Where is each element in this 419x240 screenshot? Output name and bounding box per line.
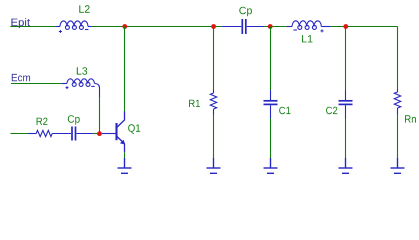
L3 minus mark (91, 85, 94, 87)
capacitor C2 (339, 90, 353, 119)
wire R1 to ground (213, 115, 215, 158)
capacitor Cp (input) (52, 127, 93, 141)
L2 plus mark (59, 30, 62, 33)
label CpB (68, 115, 80, 125)
wire input to R2 (11, 133, 29, 135)
wire Q1 emitter to ground (124, 152, 126, 158)
ground (C2) (339, 158, 353, 173)
junction dot node E (base) (97, 131, 102, 136)
label L1 (302, 35, 312, 42)
resistor Rn (394, 89, 400, 114)
wire node E to Q1 base (102, 133, 116, 135)
ground (R1) (207, 158, 221, 173)
wire Epit to L2 (10, 26, 55, 28)
label R1 (189, 100, 200, 107)
label C2 (326, 107, 337, 115)
wire Rn to ground (397, 114, 399, 158)
L3 plus mark (66, 86, 69, 89)
wire node A down to Q1 collector (124, 27, 126, 112)
wire node D down to C2 (345, 27, 347, 91)
label C1 (279, 107, 290, 115)
wire L2 to node B (top rail) (91, 26, 221, 28)
wire node C down to C1 (270, 27, 272, 91)
ground (C1) (264, 158, 278, 173)
inductor L1 (287, 21, 331, 30)
junction dot node B (R1 column) (211, 24, 216, 29)
label Q1 (128, 124, 140, 133)
L1 minus mark (294, 29, 297, 31)
label Ecm (12, 74, 30, 81)
ground (Q1) (118, 158, 132, 173)
wire Cp to node C (264, 26, 287, 28)
junction dot node C (C1 column) (268, 24, 273, 29)
wire node B down to R1 (213, 27, 215, 90)
label L3 (77, 67, 87, 75)
wire corner down to Rn (397, 27, 399, 90)
ground (Rn) (391, 158, 405, 173)
L2 minus mark (85, 29, 88, 31)
label Epit (11, 18, 30, 28)
junction dot node D (C2 column) (343, 24, 348, 29)
resistor R1 (210, 89, 216, 115)
wire L3 down to node E (99, 97, 101, 134)
label CpT (239, 7, 252, 17)
wire Cp to node E (93, 133, 99, 135)
label R2 (37, 118, 48, 125)
label Rn (405, 115, 416, 122)
capacitor Cp (series, top) (222, 19, 264, 34)
wire C2 to ground (345, 119, 347, 159)
capacitor C1 (264, 90, 278, 119)
Q1 emitter arrowhead (120, 140, 125, 145)
label L2 (79, 5, 89, 12)
inductor L3 (62, 79, 100, 97)
junction dot node A (collector column) (122, 24, 127, 29)
resistor R2 (29, 130, 53, 136)
transistor Q1 (117, 112, 125, 153)
L1 plus mark (321, 29, 324, 32)
inductor L2 (55, 21, 91, 30)
wire C1 to ground (270, 119, 272, 159)
wire L1 to corner (331, 26, 398, 28)
wire Ecm to L3 (11, 83, 62, 85)
